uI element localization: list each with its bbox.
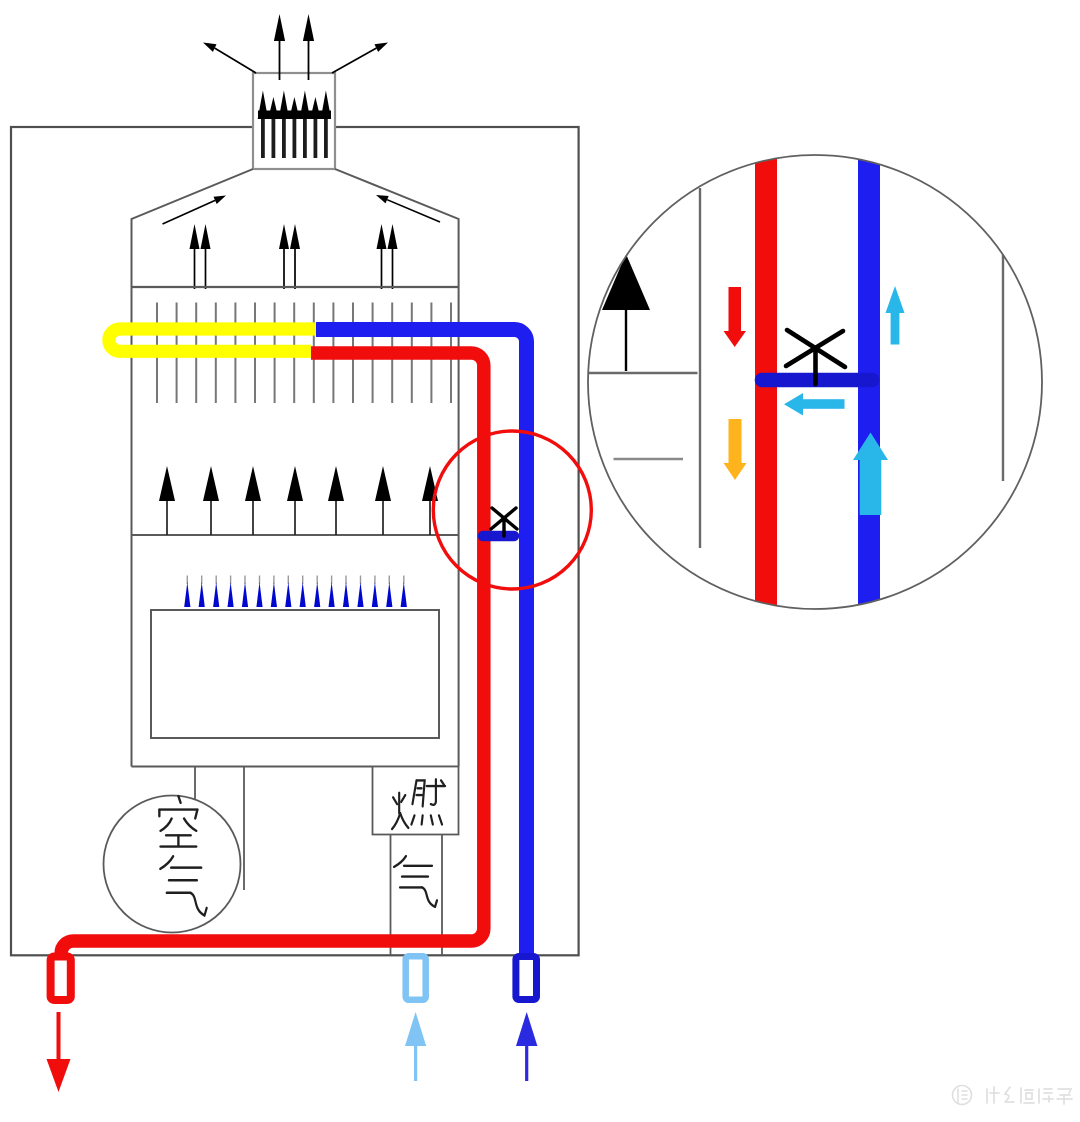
gas box — [373, 767, 459, 835]
draft hood outline — [132, 169, 459, 767]
hot gas double arrow at x=200 — [190, 224, 211, 289]
exhaust diagonal arrow right — [332, 43, 388, 74]
gas in arrow — [405, 1012, 426, 1081]
heat exchanger top line — [132, 286, 459, 288]
hood draft arrow right — [376, 195, 440, 222]
flame arrow at x=167 — [159, 466, 175, 535]
zoomed water valve symbol — [786, 330, 845, 384]
magnifier circle outline — [588, 155, 1042, 609]
zoomed chamber wall — [699, 188, 701, 548]
zoomed flame arrow — [602, 254, 650, 371]
label qi (air) char 2 — [160, 856, 206, 915]
flame arrow at x=211 — [203, 466, 219, 535]
flue outlet box — [253, 73, 335, 169]
gas duct lines — [391, 835, 443, 956]
flame arrow at x=336 — [328, 466, 344, 535]
water valve symbol (small) — [491, 508, 517, 536]
hot water outlet stub — [51, 957, 71, 1001]
zoomed burner line — [588, 372, 698, 374]
zoomed lower line — [614, 458, 684, 460]
exhaust diagonal arrow left — [203, 43, 256, 74]
flue vent arrows inside outlet box — [258, 91, 331, 159]
valve branch stub (small) — [483, 531, 514, 542]
red highlight circle — [433, 431, 591, 589]
hot water out arrow — [47, 1012, 71, 1092]
flame arrow at x=295 — [287, 466, 303, 535]
burner flame jets — [184, 576, 407, 608]
cold flow up arrow small (cyan) — [886, 286, 905, 345]
hot gas double arrow at x=290 — [279, 224, 300, 289]
flame arrow at x=430 — [422, 466, 438, 535]
hot gas double arrow at x=382 — [377, 224, 398, 289]
cold water in arrow — [516, 1012, 537, 1081]
label kong (air) char 1 — [159, 796, 197, 846]
boiler outer case — [11, 127, 579, 955]
air fan circle — [104, 796, 241, 933]
yellow heat exchanger coil — [109, 329, 319, 351]
flame arrow at x=383 — [375, 466, 391, 535]
cold flow up arrow large (cyan) — [853, 433, 888, 516]
warm flow down arrow (orange) — [724, 419, 747, 480]
zoomed valve branch stub — [762, 373, 872, 388]
burner box — [151, 610, 439, 738]
zoomed blue pipe — [858, 150, 880, 614]
label ran (gas) char 1 — [392, 779, 445, 829]
zoomed case edge — [1002, 250, 1004, 481]
air duct lines — [195, 767, 244, 891]
watermark logo circle — [953, 1086, 972, 1105]
blue cold water pipe — [316, 330, 527, 956]
combustion chamber bottom line — [132, 766, 459, 768]
watermark text — [987, 1087, 1072, 1104]
zoomed red pipe — [755, 150, 777, 614]
exhaust up arrows — [274, 14, 314, 80]
hood draft arrow left — [163, 196, 227, 225]
hot flow down arrow (red) — [724, 287, 747, 347]
red hot water pipe — [61, 353, 484, 955]
cold water inlet stub — [516, 957, 537, 1000]
gas inlet stub (light blue) — [406, 956, 426, 1000]
heat exchanger fins — [157, 303, 451, 404]
branch flow left arrow (cyan) — [784, 393, 845, 416]
combustion chamber top line — [132, 534, 459, 536]
flame arrow at x=253 — [245, 466, 261, 535]
label qi (gas) char 2 — [394, 856, 437, 907]
